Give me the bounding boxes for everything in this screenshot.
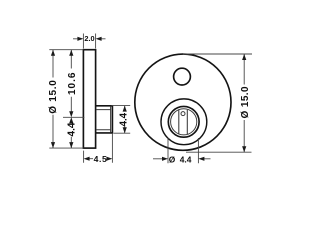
knob protrusion inner step lines — [96, 106, 110, 132]
svg-text:10.6: 10.6 — [67, 72, 78, 95]
dim 2.0 extension lines — [83, 34, 95, 49]
dim line 10.6 — [70, 50, 72, 112]
svg-text:Ø 15.0: Ø 15.0 — [240, 86, 251, 118]
svg-text:4.5: 4.5 — [94, 154, 108, 164]
front top extension line — [183, 53, 252, 55]
knob inner circle — [171, 109, 197, 135]
svg-text:4.4: 4.4 — [118, 112, 129, 126]
dim line D4.4 — [153, 158, 211, 160]
knob recess circle — [161, 99, 207, 145]
dim 4.5 extension lines — [84, 134, 113, 163]
set screw circle — [181, 112, 185, 116]
front bottom extension line — [186, 151, 252, 153]
knob axis tick — [63, 116, 84, 118]
svg-text:4.4: 4.4 — [66, 122, 77, 136]
knob rim circle — [168, 106, 199, 137]
dim line 4.5 — [89, 158, 108, 160]
grip bar — [179, 110, 188, 135]
dim line 2.0 — [73, 38, 106, 40]
dim 4.4 right extension lines — [111, 106, 130, 134]
svg-text:Ø 4.4: Ø 4.4 — [169, 154, 192, 164]
svg-text:Ø 15.0: Ø 15.0 — [48, 79, 59, 113]
side view knob protrusion — [96, 106, 112, 133]
dim line D150 left — [52, 50, 54, 148]
dim line 4.4 left — [70, 137, 72, 148]
dim line D150 right — [243, 54, 245, 152]
top extension line — [49, 49, 83, 51]
select button — [174, 68, 191, 85]
dim D4.4 extension lines — [168, 138, 198, 163]
bottom extension line — [49, 147, 83, 149]
dim line 4.4 right — [124, 106, 126, 134]
side view plate — [83, 50, 95, 148]
front view faceplate circle — [135, 54, 231, 150]
svg-text:2.0: 2.0 — [84, 34, 94, 43]
